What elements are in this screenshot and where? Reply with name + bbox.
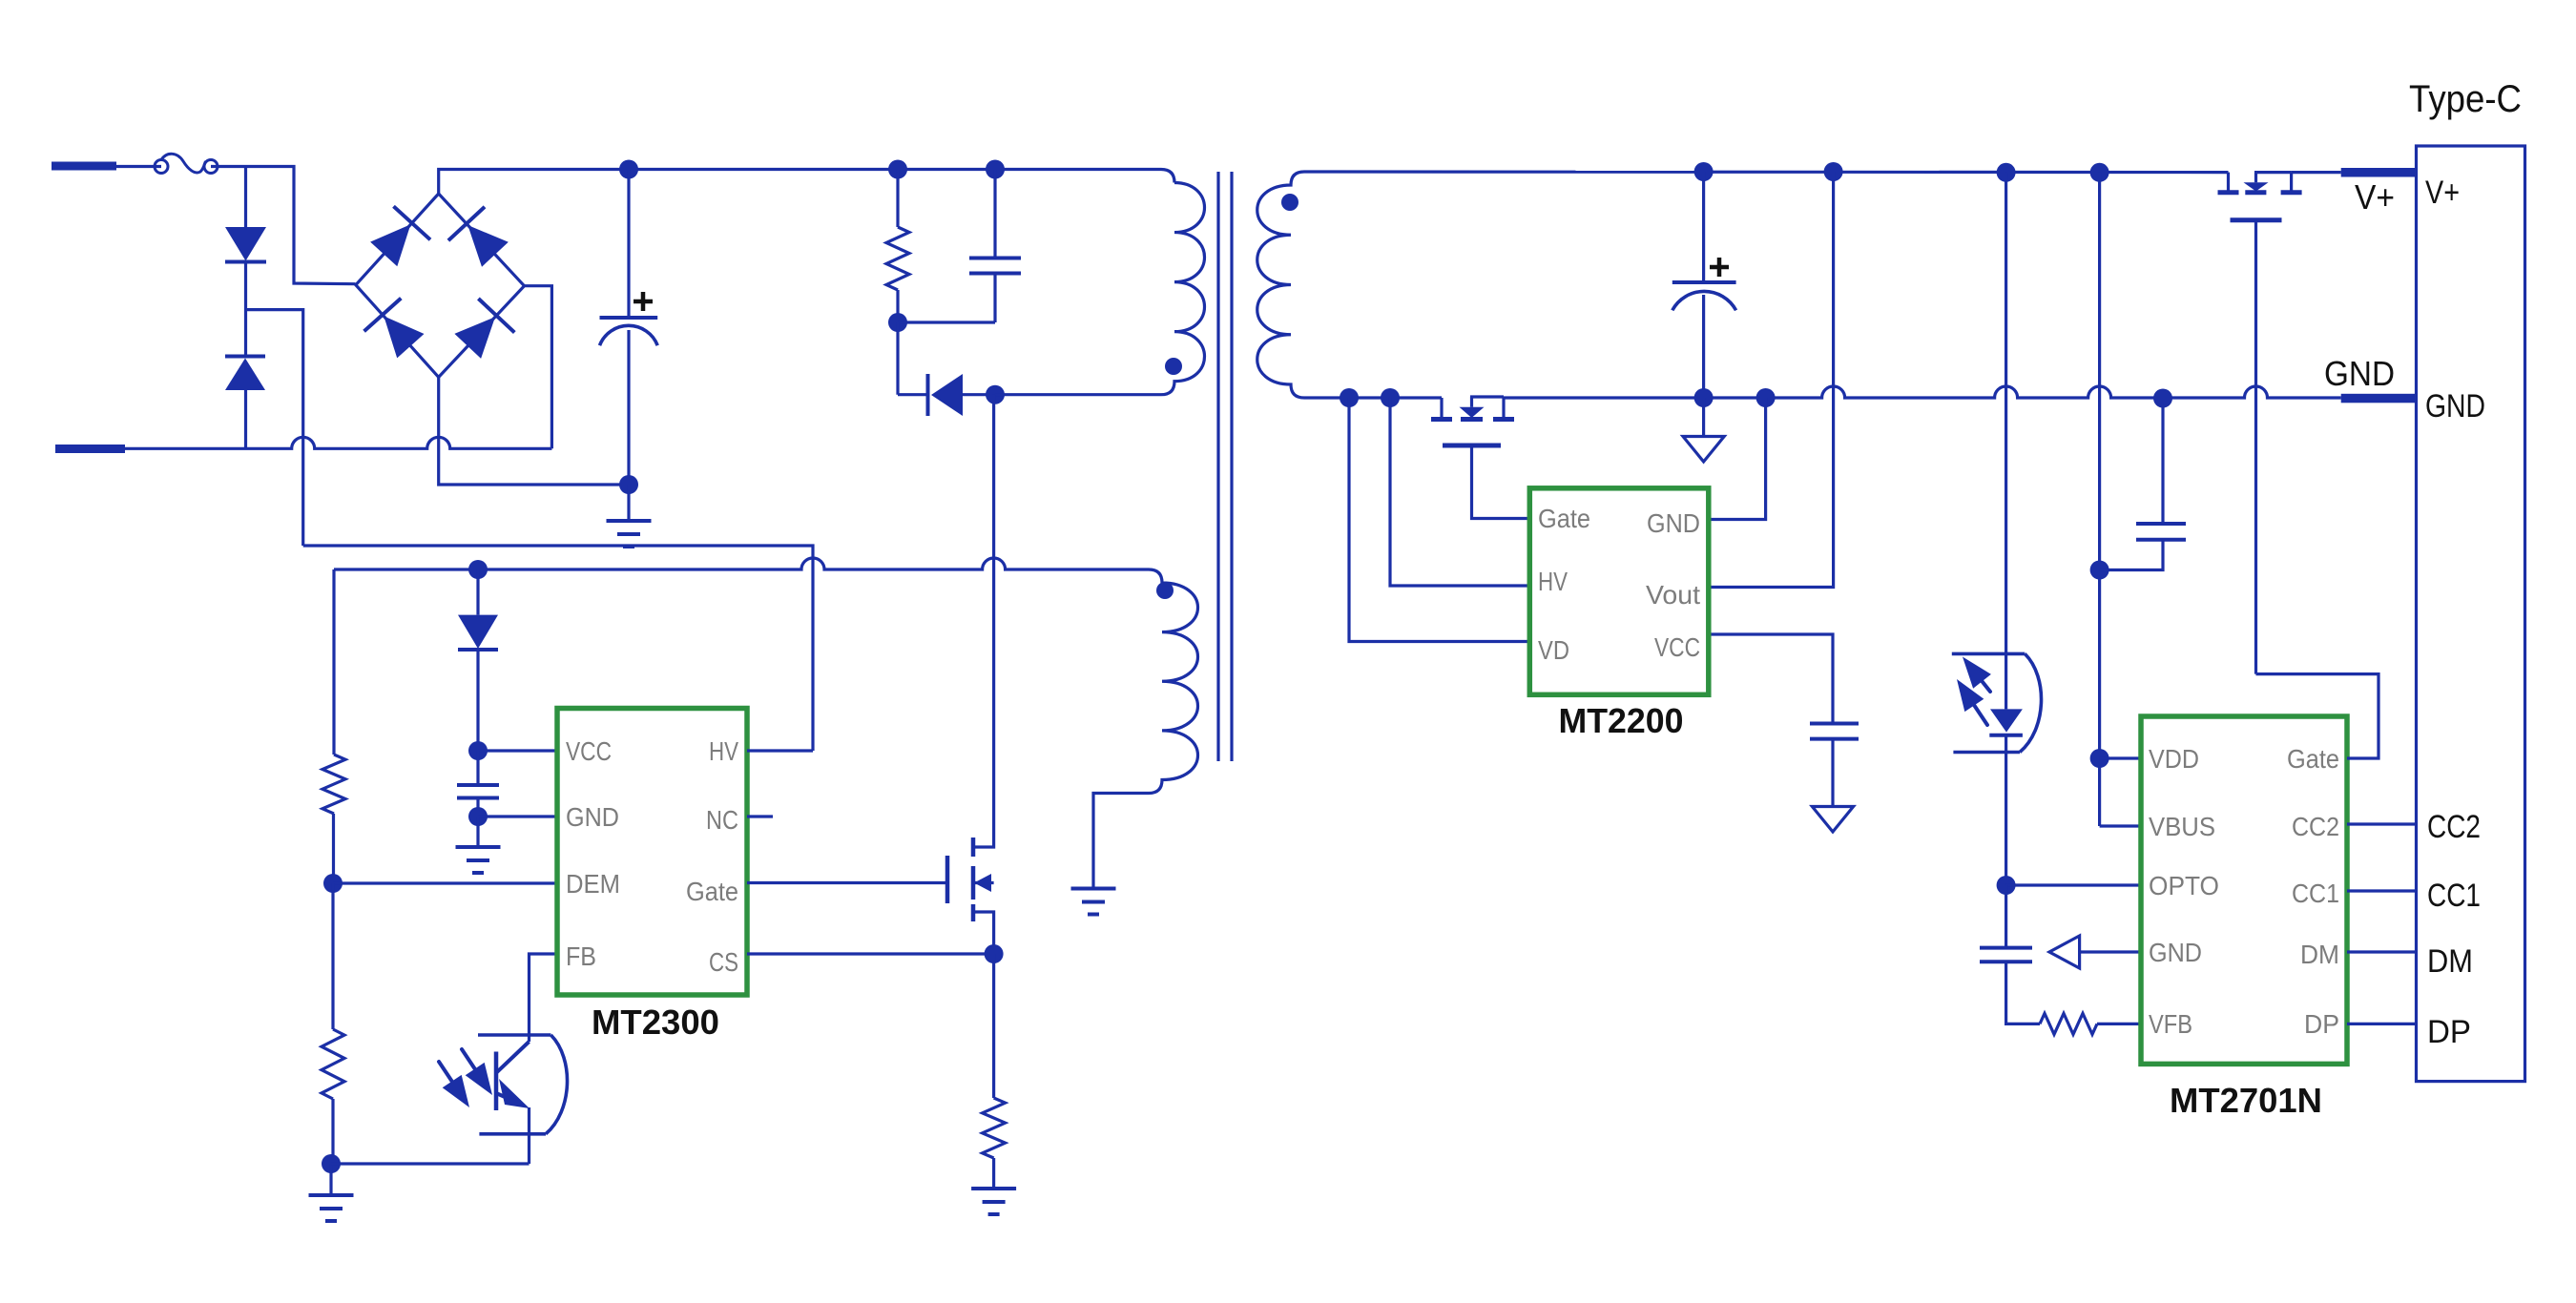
svg-text:GND: GND: [2425, 388, 2485, 424]
wire aux winding bottom to ground: [1093, 794, 1149, 889]
node between D1 D2 to vertical: [246, 310, 303, 546]
svg-text:GND: GND: [566, 802, 619, 832]
svg-text:HV: HV: [1538, 567, 1568, 596]
MOSFET Q1 channel: [971, 838, 976, 857]
junction VDD cc cap: [2090, 561, 2109, 580]
junction snubber bottom: [888, 313, 907, 332]
snubber capacitor C2: [993, 170, 996, 259]
VCC capacitor C6: [1810, 722, 1859, 726]
wire D2 to AC neutral: [244, 390, 247, 448]
junction CS sense node: [985, 944, 1004, 963]
AC input terminal N: [55, 445, 125, 453]
wire GND pin arrow: [2080, 950, 2141, 953]
svg-text:DP: DP: [2427, 1014, 2471, 1050]
IC U1 MT2300 box: [557, 709, 747, 996]
svg-text:GND: GND: [2149, 938, 2202, 967]
wire VDD pin: [2100, 756, 2141, 759]
diode D1: [225, 227, 266, 261]
snubber diode D5: [926, 374, 930, 416]
VCC ground arrow: [1812, 807, 1853, 833]
svg-text:DM: DM: [2427, 943, 2473, 980]
MOSFET Q2 gate: [1443, 444, 1501, 448]
aux rectifier diode D3: [476, 569, 479, 615]
primary winding phase dot: [1165, 358, 1182, 375]
secondary GND rail with hops: [1504, 386, 2341, 398]
svg-text:Gate: Gate: [686, 877, 738, 906]
junction V+ rail VDD branch: [2090, 163, 2109, 182]
wire DP pin: [2347, 1023, 2417, 1025]
wire MT2200 GND pin: [1709, 398, 1766, 520]
MOSFET Q3 source lead: [2254, 171, 2292, 174]
svg-text:GND: GND: [1647, 508, 1700, 538]
svg-text:VCC: VCC: [566, 736, 612, 766]
transformer secondary winding: [1257, 172, 1304, 398]
optocoupler U2 phototransistor base: [494, 1052, 499, 1111]
MOSFET Q2 drain lead: [1440, 398, 1443, 418]
wire DM pin: [2347, 950, 2417, 953]
DEM divider resistor R3: [331, 883, 334, 1029]
MOSFET Q2 body diode: [1470, 397, 1473, 407]
AC neutral wire with crossover hops: [125, 437, 551, 448]
optocoupler U2 light arrow 2: [462, 1049, 477, 1072]
svg-text:VD: VD: [1538, 635, 1569, 665]
MOSFET Q3 body diode: [2254, 173, 2257, 183]
junction snubber resistor top: [888, 160, 907, 179]
optocoupler U2 emitter: [496, 1093, 518, 1103]
wire VCC to cap: [1709, 634, 1833, 724]
MT2300 ground symbol: [476, 817, 479, 847]
bridge diode bottom-left: [384, 316, 424, 358]
NC stub: [747, 815, 773, 817]
svg-text:CC2: CC2: [2427, 809, 2481, 845]
svg-text:CC2: CC2: [2292, 812, 2339, 841]
wire CC2 pin: [2347, 822, 2417, 825]
svg-text:OPTO: OPTO: [2149, 871, 2219, 900]
bridge diode bottom-right: [454, 317, 495, 359]
MOSFET Q1 source: [973, 912, 994, 954]
plus sign of C1: [634, 292, 653, 311]
bulk capacitor C1: [627, 170, 630, 319]
junction V+ rail opto branch: [1997, 163, 2016, 182]
sense resistor ground symbol: [971, 1187, 1016, 1190]
MOSFET Q1 body arrow: [973, 881, 994, 884]
wire HV pin: [747, 749, 813, 752]
junction opto emitter return: [322, 1154, 341, 1173]
wire fuse to bridge: [211, 167, 356, 284]
wire top-line to D1: [244, 167, 247, 228]
junction V+ rail output cap: [1694, 162, 1714, 181]
svg-text:MT2200: MT2200: [1559, 701, 1684, 740]
MOSFET Q3 gate: [2231, 217, 2282, 222]
wire Vout: [1709, 172, 1834, 588]
MOSFET Q2 source lead: [1470, 395, 1504, 398]
optocoupler U2 collector: [496, 1042, 530, 1073]
svg-text:Gate: Gate: [1538, 504, 1590, 533]
Type-C connector box: [2417, 146, 2525, 1082]
wire bridge negative to ground node: [439, 377, 629, 485]
svg-text:DEM: DEM: [566, 869, 620, 899]
junction GND rail cc cap: [2153, 389, 2172, 408]
bridge diode top-left: [370, 224, 410, 266]
wire VD: [1349, 398, 1529, 642]
IC U3 MT2200 box: [1529, 488, 1709, 695]
bridge rectifier outline: [356, 194, 525, 377]
svg-text:V+: V+: [2355, 177, 2395, 217]
wire Q3 to V+ pin: [2292, 171, 2341, 174]
optocoupler U2 light arrow 1: [439, 1062, 454, 1085]
output capacitor C5: [1702, 172, 1705, 282]
wire D1 to D2: [244, 262, 247, 357]
DEM divider resistor R1: [322, 755, 345, 814]
VFB resistor R5: [2040, 1013, 2097, 1034]
wire OPTO pin: [2006, 883, 2141, 886]
wire emitter to return: [331, 1162, 530, 1165]
sense resistor R4: [992, 954, 995, 1098]
junction GND rail output cap: [1694, 388, 1714, 407]
V+ terminal bar: [2341, 168, 2417, 177]
wire FB to optocoupler: [530, 954, 558, 1042]
transformer aux winding: [1149, 569, 1198, 794]
bridge diode top-right: [467, 225, 509, 267]
diode D2: [225, 355, 265, 359]
junction DEM node: [323, 874, 343, 893]
wire snubber junction to primary winding: [995, 393, 1161, 396]
svg-text:HV: HV: [709, 736, 738, 766]
svg-text:VFB: VFB: [2149, 1009, 2192, 1039]
AC input terminal L: [52, 162, 116, 171]
junction snubber cap top: [986, 160, 1005, 179]
svg-text:CC1: CC1: [2427, 878, 2481, 914]
junction primary ground node: [619, 475, 638, 494]
wire AC neutral to bridge right corner: [525, 286, 552, 449]
aux feed line B with hops: [334, 558, 1149, 569]
wire CS to sense node: [747, 952, 994, 955]
junction GND rail MT2200 GND: [1756, 388, 1776, 407]
svg-text:Vout: Vout: [1646, 580, 1700, 610]
wire VDD/VBUS vertical: [2098, 173, 2101, 826]
MOSFET Q1 drain: [973, 395, 994, 847]
svg-text:CS: CS: [709, 947, 738, 977]
svg-text:Gate: Gate: [2287, 744, 2339, 774]
wire DEM to MT2300: [333, 881, 557, 884]
svg-text:FB: FB: [566, 941, 596, 971]
svg-text:MT2300: MT2300: [592, 1003, 719, 1042]
VCC capacitor C3: [476, 751, 479, 785]
aux winding phase dot: [1156, 582, 1174, 599]
svg-text:VCC: VCC: [1654, 632, 1700, 662]
svg-text:V+: V+: [2425, 175, 2460, 211]
wire snubber bottom: [898, 321, 995, 323]
junction primary DC+ at bulk cap: [619, 160, 638, 179]
wire GND pin: [478, 815, 557, 817]
optocoupler U2 envelope: [478, 1033, 551, 1037]
junction OPTO node: [1997, 876, 2016, 895]
wire VBUS pin: [2100, 824, 2141, 827]
MOSFET Q3 drain lead: [2227, 173, 2230, 191]
junction GND rail VD branch: [1340, 388, 1359, 407]
optocoupler U2 LED arrow 1: [1980, 678, 1990, 692]
svg-text:VDD: VDD: [2149, 744, 2199, 774]
primary ground symbol: [627, 485, 630, 521]
svg-text:GND: GND: [2324, 354, 2395, 393]
svg-text:DM: DM: [2300, 940, 2339, 969]
svg-text:CC1: CC1: [2292, 879, 2339, 908]
plus sign of C5: [1710, 258, 1729, 277]
IC U4 MT2701N box: [2141, 716, 2347, 1064]
svg-text:MT2701N: MT2701N: [2170, 1081, 2322, 1120]
secondary V+ rail: [1304, 170, 2229, 174]
svg-text:Type-C: Type-C: [2409, 78, 2522, 120]
junction aux diode top: [468, 560, 488, 579]
fuse F1: [155, 160, 168, 174]
junction GND rail HV branch: [1381, 388, 1400, 407]
junction VDD node: [2090, 749, 2109, 768]
optocoupler U2 LED: [2005, 173, 2007, 710]
lower ground symbol: [329, 1164, 332, 1195]
junction snubber diode anode: [986, 385, 1005, 404]
wire Gate to Q1: [747, 881, 947, 884]
aux ground symbol: [1071, 887, 1116, 891]
wire HV step line A: [303, 546, 813, 751]
transformer core: [1216, 172, 1219, 761]
secondary GND rail left: [1304, 396, 1442, 399]
svg-text:DP: DP: [2304, 1009, 2339, 1039]
wire HV: [1390, 398, 1529, 586]
optocoupler U2 LED envelope: [1952, 652, 2025, 656]
CC filter capacitor C8: [2161, 399, 2164, 525]
transformer primary winding: [1161, 183, 1205, 395]
svg-text:VBUS: VBUS: [2149, 812, 2215, 841]
snubber resistor R2: [886, 227, 909, 290]
wire CC1 pin: [2347, 889, 2417, 892]
junction VCC node: [468, 741, 488, 760]
GND terminal bar: [2341, 394, 2417, 403]
primary DC+ rail: [439, 170, 1174, 195]
wire gate routing: [2256, 674, 2379, 758]
output ground arrow: [1702, 398, 1705, 437]
wire VCC to MT2300: [478, 749, 557, 752]
secondary winding phase dot: [1281, 194, 1298, 211]
wire line B corner down: [332, 569, 335, 755]
junction V+ rail Vout branch: [1824, 162, 1843, 181]
junction VCC cap bottom: [468, 807, 488, 826]
optocoupler U2 LED arrow 2: [1972, 702, 1987, 725]
VFB capacitor C7: [2005, 885, 2007, 948]
svg-text:NC: NC: [706, 805, 738, 835]
MOSFET Q1 gate bar: [945, 856, 950, 903]
